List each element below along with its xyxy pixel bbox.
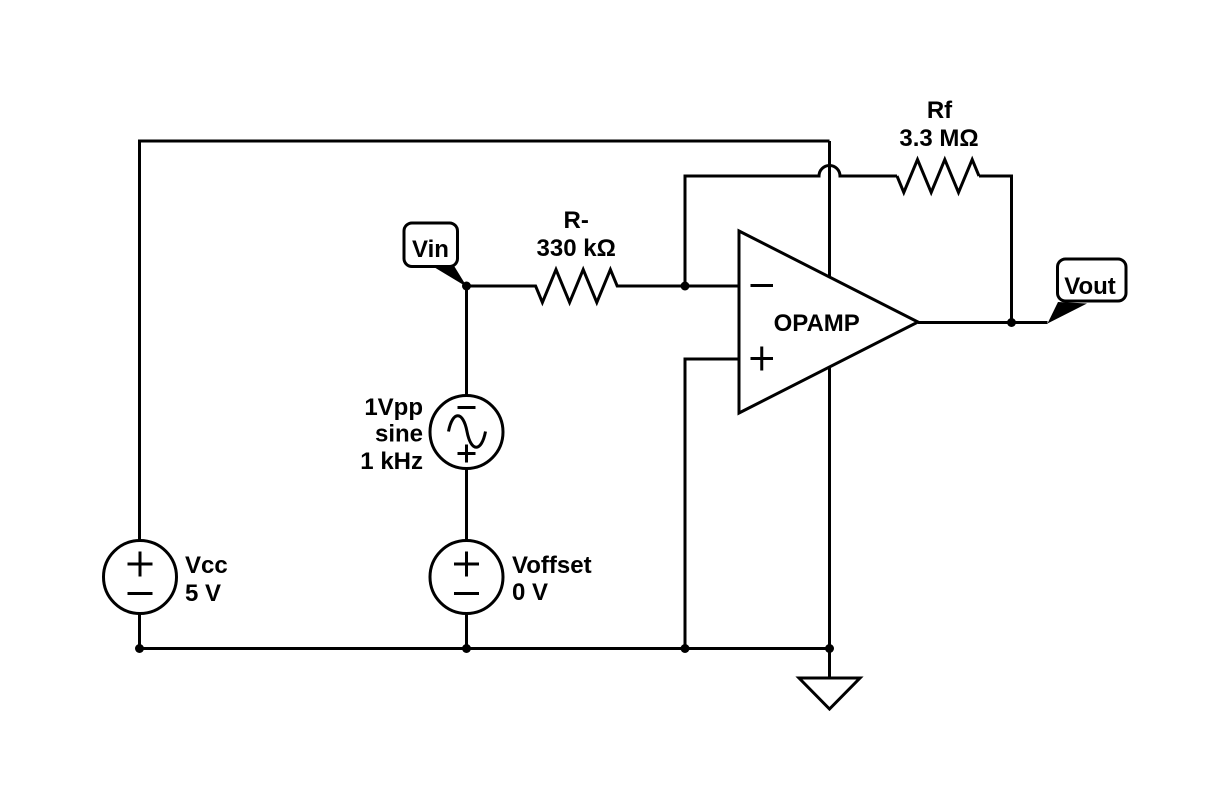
svg-text:Vin: Vin <box>412 236 449 263</box>
sine voltage source circle <box>430 396 503 469</box>
wire opamp V+ pin drop <box>828 141 831 277</box>
Vcc minus sign <box>128 592 153 595</box>
wire Vin node down to sine source <box>465 286 468 395</box>
node label Vin flag box <box>404 223 458 267</box>
svg-text:1Vpp: 1Vpp <box>364 394 423 421</box>
Voffset plus sign <box>454 552 479 577</box>
sine source minus sign <box>458 406 476 409</box>
svg-text:OPAMP: OPAMP <box>774 310 860 337</box>
junction ground rail <box>825 644 834 653</box>
junction Vin node <box>462 282 471 291</box>
sine source waveform glyph <box>449 416 486 448</box>
svg-text:0 V: 0 V <box>512 579 548 606</box>
Vout flag pointer <box>1048 302 1088 324</box>
wire non-inverting input to ground rail <box>685 359 739 649</box>
wire Voffset source to bottom rail <box>465 613 468 649</box>
junction output node <box>1007 318 1016 327</box>
svg-text:sine: sine <box>375 421 423 448</box>
svg-text:Vout: Vout <box>1064 273 1116 300</box>
wire sine source to Voffset source <box>465 469 468 541</box>
svg-text:330 kΩ: 330 kΩ <box>537 235 616 262</box>
op-amp inverting input minus sign <box>751 284 774 287</box>
voltage source Vcc circle <box>104 541 177 614</box>
wire Vcc source bottom lead <box>138 614 141 649</box>
svg-text:Voffset: Voffset <box>512 552 592 579</box>
sine source plus sign <box>458 445 476 463</box>
junction Voffset bottom rail <box>462 644 471 653</box>
svg-text:5 V: 5 V <box>185 580 221 607</box>
wire bottom ground rail <box>140 647 830 650</box>
voltage source Voffset circle <box>430 541 503 614</box>
svg-text:1 kHz: 1 kHz <box>360 448 423 475</box>
node label Vout flag box <box>1058 259 1127 301</box>
wire Rf right lead down to output node <box>979 176 1012 323</box>
Vin flag pointer <box>431 265 468 287</box>
junction inverting input node <box>681 282 690 291</box>
op-amp U1 triangle <box>739 231 918 413</box>
junction Vcc bottom rail <box>135 644 144 653</box>
svg-text:R-: R- <box>564 207 589 234</box>
svg-text:3.3 MΩ: 3.3 MΩ <box>899 125 978 152</box>
resistor Rf 3.3 MOhm zigzag <box>897 160 979 193</box>
op-amp non-inverting input plus sign <box>751 347 774 371</box>
junction non-inverting rail <box>681 644 690 653</box>
svg-text:Rf: Rf <box>927 97 953 124</box>
wire opamp V- pin to ground <box>828 367 831 678</box>
Vcc plus sign <box>128 552 153 577</box>
resistor R- 330 kOhm with leads from Vin node to inverting input <box>467 270 740 303</box>
wire opamp output to Vout tap <box>918 321 1048 324</box>
wire feedback net: inverting node up and across with hop over V+ drop <box>685 166 897 286</box>
ground symbol <box>799 678 860 709</box>
wire Vcc top rail (top-left corner to opamp V+ drop) <box>140 141 830 541</box>
svg-text:Vcc: Vcc <box>185 552 228 579</box>
Voffset minus sign <box>454 592 479 595</box>
